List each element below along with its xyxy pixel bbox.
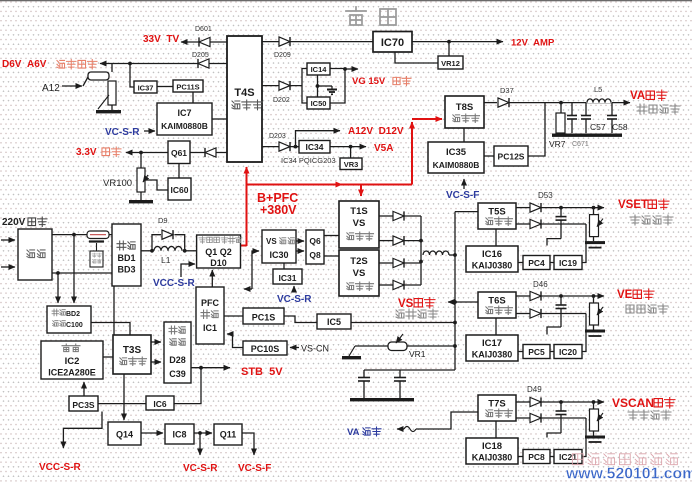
svg-text:Q61: Q61 [171, 148, 187, 158]
diode D49 top [516, 401, 530, 403]
svg-text:VC-S-R: VC-S-R [183, 463, 218, 474]
filter box [18, 229, 52, 280]
wire VSCAN output arrow [542, 401, 605, 403]
svg-text:T6S: T6S [488, 296, 505, 307]
svg-text:PC1S: PC1S [252, 313, 276, 323]
inductor L1 [154, 246, 182, 250]
VR100 resistor [140, 153, 142, 169]
wire mains input arrows [1, 239, 15, 241]
wire red bus vertical into T4S [246, 167, 248, 246]
svg-text:ICE2A280E: ICE2A280E [48, 368, 96, 378]
wire IC37-PC11S [157, 86, 173, 88]
IC17 KAIJ0380 [466, 335, 518, 361]
wire BD1 down to T3S [113, 286, 115, 335]
svg-text:VCC-S-R: VCC-S-R [39, 462, 81, 473]
wire IC1 to PC1S [224, 315, 243, 317]
wire middle between IC14 IC50 [317, 75, 319, 97]
diode D49 bottom [516, 417, 530, 419]
transformer T6S [478, 292, 516, 318]
resistor divider VE [593, 296, 595, 303]
ground below A12 resistor [111, 105, 113, 110]
node junction 3.3V line [139, 151, 143, 155]
PC11S [173, 80, 203, 92]
svg-text:PC4: PC4 [528, 258, 545, 268]
svg-text:IC2: IC2 [65, 356, 80, 367]
resistor divider VSCAN [593, 402, 595, 409]
svg-text:VC-S-F: VC-S-F [446, 190, 479, 201]
svg-text:D10: D10 [210, 258, 227, 268]
svg-text:VSCAN: VSCAN [612, 396, 654, 410]
svg-text:T1S: T1S [350, 206, 367, 217]
PFC switch box Q1 Q2 D10 [197, 235, 241, 268]
transformer T8S [445, 96, 484, 128]
wire Q14 to IC8 arrow [141, 432, 163, 434]
potentiometer VR1 [453, 344, 457, 348]
IC21 [554, 450, 582, 464]
Q6 Q8 box [306, 230, 324, 264]
svg-text:33V TV: 33V TV [143, 34, 179, 45]
svg-text:IC34: IC34 [306, 142, 324, 152]
svg-text:VA: VA [347, 427, 360, 438]
svg-text:Q14: Q14 [116, 430, 133, 440]
Q14 [108, 422, 141, 445]
svg-text:D53: D53 [538, 191, 553, 200]
wire IC34 to V5A [330, 146, 366, 148]
IC18 KAIJ0380 [466, 438, 518, 464]
svg-text:D209: D209 [274, 52, 291, 59]
IC7 KAIM0880B [157, 103, 212, 135]
IC37 [134, 81, 157, 93]
diode D46 top [516, 295, 530, 297]
wire BD1 to L1 node [141, 250, 152, 252]
svg-text:BD2: BD2 [66, 311, 80, 318]
svg-text:T3S: T3S [123, 345, 142, 356]
wire 3.3V output [126, 152, 168, 154]
svg-text:L1: L1 [161, 255, 171, 265]
varistor below fuse [89, 240, 104, 242]
transformer T2S [339, 250, 379, 296]
svg-text:T5S: T5S [488, 207, 505, 218]
svg-text:IC70: IC70 [381, 37, 404, 49]
IC8 [165, 424, 194, 444]
svg-text:VC-S-R: VC-S-R [105, 127, 140, 138]
wire resistor tap to line [111, 64, 113, 73]
svg-text:VR1: VR1 [409, 349, 426, 359]
wires into BD2 arrows [73, 235, 75, 303]
svg-text:PC3S: PC3S [72, 400, 95, 410]
svg-text:C39: C39 [169, 369, 186, 379]
wire T7S to IC18 [495, 421, 497, 438]
svg-text:VA: VA [630, 90, 645, 102]
svg-text:IC60: IC60 [171, 185, 189, 195]
diode D601 [199, 37, 210, 46]
svg-text:T4S: T4S [234, 87, 254, 99]
IC35 KAIM0880B [428, 142, 484, 173]
svg-text:D202: D202 [273, 97, 290, 104]
wire VE feedback [542, 313, 587, 315]
IC50 [307, 97, 330, 109]
ground VSET [593, 237, 595, 242]
IC19 [554, 256, 582, 270]
wire IC6 up to STB node [174, 368, 201, 404]
wire PC3S to IC2 arrow [83, 382, 85, 396]
svg-text:IC17: IC17 [482, 338, 502, 349]
svg-text:T2S: T2S [350, 256, 367, 267]
wire D28 to STB 5V [191, 367, 230, 369]
svg-text:VR12: VR12 [441, 59, 460, 68]
wire VS-CN arrow into PC10S [290, 347, 299, 349]
svg-text:IC50: IC50 [311, 99, 327, 108]
wire IC5 to VS bus [351, 322, 455, 324]
capacitor C671 [571, 103, 573, 116]
svg-text:PC12S: PC12S [498, 152, 525, 162]
wire T3S down to Q14 arrow [123, 374, 125, 420]
svg-text:VR100: VR100 [103, 178, 132, 189]
transformer T4S [227, 36, 262, 162]
wires IC30 to Q6 Q8 arrows [296, 240, 304, 242]
wire junction to IC37 [130, 64, 134, 88]
wire bus caps [364, 369, 455, 371]
diode D202 [279, 81, 290, 90]
svg-text:IC18: IC18 [482, 441, 502, 452]
svg-text:BD3: BD3 [117, 265, 135, 275]
svg-text:VG 15V: VG 15V [352, 76, 386, 87]
svg-text:PFC: PFC [201, 298, 220, 308]
diode right of Q61 [190, 152, 227, 154]
wire D37 to VA output [509, 102, 630, 104]
watermark hao-ming [346, 7, 366, 25]
svg-text:IC16: IC16 [482, 249, 502, 260]
wire IC70 to 12V AMP [412, 41, 503, 43]
capacitor VE filter [560, 296, 562, 305]
PC8 [523, 450, 550, 464]
ground small near IC50 [318, 85, 333, 87]
svg-text:IC14: IC14 [311, 65, 328, 74]
svg-text:T7S: T7S [488, 399, 505, 410]
capacitor C57 [585, 103, 587, 116]
wire 33V TV output [181, 41, 227, 43]
wire red PFC box to bus [241, 245, 247, 247]
svg-text:D6V A6V: D6V A6V [2, 59, 47, 70]
wire to A12V D12V [296, 131, 341, 147]
capacitor C58 [611, 103, 613, 116]
wires Q6 Q8 to transformers [324, 235, 339, 237]
wire VSET feedback [542, 223, 587, 225]
svg-text:VS-CN: VS-CN [301, 344, 329, 354]
VR3 [340, 158, 362, 170]
wire D6V output line [100, 63, 227, 65]
svg-text:VR7: VR7 [549, 139, 566, 149]
svg-text:L5: L5 [594, 85, 602, 94]
border top edge [0, 0, 692, 1]
svg-text:IC35: IC35 [446, 147, 467, 158]
svg-text:VS: VS [398, 298, 414, 310]
PFC control IC1 [196, 287, 224, 344]
wire VS output arrow [448, 301, 455, 303]
wire T8S to D37 [484, 102, 497, 104]
svg-text:VS: VS [353, 268, 366, 279]
wire BD2 to T3S [91, 323, 130, 336]
wire red branch to T1S [360, 185, 362, 197]
node junction D6V line [128, 62, 132, 66]
VS preset IC30 [262, 230, 296, 263]
IC70 [373, 32, 412, 53]
wire PC11S to IC7 [192, 92, 194, 103]
svg-text:IC19: IC19 [559, 258, 577, 268]
resistor horizontal near A12 [88, 72, 109, 80]
svg-text:IC1: IC1 [203, 323, 217, 333]
svg-text:PC8: PC8 [528, 452, 545, 462]
capacitor bank VS 2 [399, 370, 401, 378]
rectifier BD1 BD3 [112, 224, 141, 286]
PC1S [243, 308, 284, 324]
wire T4S to D203 [262, 146, 299, 148]
svg-text:V5A: V5A [374, 143, 393, 154]
diode D53 top [516, 207, 530, 209]
svg-text:VC-S-R: VC-S-R [277, 294, 312, 305]
wire IC7 to T4S [212, 118, 227, 120]
inductor L5 [586, 98, 612, 104]
svg-text:D9: D9 [158, 216, 168, 225]
arrow red mid bus [330, 184, 342, 186]
IC31 [273, 269, 302, 284]
IC34 [299, 141, 330, 154]
svg-text:VE: VE [617, 289, 633, 301]
rectifier filter D28 C39 [164, 322, 191, 383]
wire PC10S to IC1 arrow [227, 334, 243, 348]
wire A12 diagonal [83, 77, 88, 86]
wire bus to T6S [455, 301, 478, 303]
wire A12 arrow [62, 85, 82, 87]
wire VC-S-F arrow into IC35 [463, 179, 465, 189]
svg-text:D28: D28 [169, 355, 186, 365]
wire VS vertical bus [454, 212, 456, 370]
IC5 [317, 314, 351, 329]
wire VR wiper to ground [98, 95, 109, 109]
svg-text:D203: D203 [269, 133, 286, 140]
svg-text:www.520101.com: www.520101.com [565, 466, 692, 483]
svg-text:VC-S-F: VC-S-F [238, 463, 271, 474]
diode D46 bottom [516, 313, 530, 315]
svg-text:KAIJ0380: KAIJ0380 [472, 453, 513, 463]
svg-text:KAIJ0380: KAIJ0380 [472, 350, 513, 360]
rectifier diodes VS [379, 215, 393, 217]
svg-text:IC37: IC37 [138, 84, 154, 93]
svg-text:VS: VS [266, 237, 277, 246]
diode D37 [498, 98, 509, 107]
PC3S [69, 396, 98, 411]
PC12S [494, 146, 528, 166]
wire L1 to PFC switch box [185, 250, 197, 252]
wire PC1S to IC5 [284, 316, 317, 323]
svg-text:C671: C671 [572, 141, 589, 148]
svg-text:3.3V: 3.3V [76, 147, 97, 158]
PC10S [243, 341, 287, 355]
wire T4S to IC70 [262, 41, 373, 43]
wire red bus up to T8S [411, 122, 413, 185]
resistor VR7 [560, 103, 562, 113]
svg-text:PC11S: PC11S [176, 83, 199, 92]
wire VSET output arrow [542, 207, 605, 209]
svg-text:D46: D46 [533, 280, 548, 289]
wire VC-S-R arrow into IC7 [144, 130, 155, 132]
IC20 [554, 345, 582, 359]
svg-text:IC6: IC6 [153, 399, 167, 409]
wire junction to VR12 [448, 42, 450, 57]
wire filter to BD1 top [52, 234, 112, 236]
svg-text:+380V: +380V [260, 203, 297, 217]
wire IC2 to T3S [103, 356, 113, 358]
Q61 [168, 141, 190, 164]
IC16 KAIJ0380 [466, 246, 518, 272]
svg-text:D49: D49 [527, 385, 542, 394]
standby IC2 ICE2A280E [41, 341, 103, 379]
diode D203 [279, 142, 290, 151]
svg-text:KAIJ0380: KAIJ0380 [472, 261, 513, 271]
svg-text:Q1 Q2: Q1 Q2 [205, 247, 232, 257]
svg-text:D205: D205 [192, 52, 209, 59]
inductor VS [423, 251, 449, 255]
watermark site name [572, 454, 583, 465]
transformer T3S [113, 335, 151, 374]
svg-text:A12V D12V: A12V D12V [348, 126, 404, 137]
rectifier BD2 C100 [47, 306, 91, 333]
IC6 [146, 396, 174, 410]
wire VG output arrow [345, 68, 358, 70]
ground VE [593, 325, 595, 330]
wire VE output arrow [542, 295, 605, 297]
svg-text:PC10S: PC10S [251, 344, 280, 354]
wire IC35 to PC12S [484, 155, 494, 157]
wire red bus horizontal [247, 184, 413, 186]
diode D9 branch [152, 235, 161, 251]
wire IC1 to PFC box arrow [211, 270, 213, 287]
wire filter to BD1 bottom [52, 272, 112, 274]
wire VSCAN feedback [542, 417, 587, 419]
wire VC-S-R down arrow [199, 433, 201, 455]
diode D53 bottom [516, 223, 530, 225]
svg-text:VCC-S-R: VCC-S-R [153, 278, 195, 289]
IC14 [307, 63, 330, 75]
wires T3S to D28 arrows [151, 341, 161, 343]
wire T8S to IC35 [463, 128, 465, 142]
svg-text:T8S: T8S [456, 102, 473, 113]
svg-text:IC8: IC8 [172, 430, 186, 440]
wire IC30 to IC31 [283, 263, 285, 269]
wire bracket right of IC14 IC50 [330, 69, 345, 104]
wire Q61 to IC60 [178, 164, 180, 179]
diode D209 [279, 37, 290, 46]
resistor vertical VR near A12 [108, 81, 116, 105]
svg-text:Q6: Q6 [309, 236, 321, 246]
capacitor VSET filter [560, 208, 562, 217]
ground bar under VS caps [350, 398, 414, 401]
wire IC8 to Q11 arrow [194, 432, 212, 434]
svg-text:BD1: BD1 [117, 253, 135, 263]
wire VR1 to ground [355, 345, 388, 347]
wire VC-S-R arrow into IC31 [293, 286, 295, 292]
transformer T5S [478, 203, 516, 229]
wire T4S to D202 [262, 85, 302, 87]
svg-text:VS: VS [353, 218, 366, 229]
capacitor VSCAN filter [560, 402, 562, 411]
svg-text:C58: C58 [612, 122, 628, 132]
PC5 [523, 345, 550, 359]
ground VSCAN [593, 431, 595, 436]
svg-text:C57: C57 [590, 122, 606, 132]
IC60 [168, 178, 191, 200]
svg-text:220V: 220V [2, 217, 26, 228]
ground below VR100 [140, 192, 142, 200]
wire into IC30 left [244, 288, 252, 290]
svg-text:PC5: PC5 [528, 347, 545, 357]
wire VCC-S-R into PFC box [181, 264, 195, 277]
svg-text:STB 5V: STB 5V [241, 366, 283, 378]
resistor divider VSET [593, 208, 595, 215]
wire PC3S to IC6 [98, 403, 146, 405]
svg-text:Q8: Q8 [309, 250, 321, 260]
node junction above VR12 [447, 40, 451, 44]
svg-text:D601: D601 [195, 26, 212, 33]
fuse on top wire [87, 231, 109, 239]
svg-text:IC7: IC7 [177, 108, 191, 118]
wire VS rectifier bus [420, 216, 422, 285]
wire bracket left of IC14 IC50 [302, 69, 307, 104]
transformer T1S [339, 201, 379, 248]
svg-text:12V AMP: 12V AMP [511, 38, 555, 49]
svg-text:D37: D37 [500, 86, 514, 95]
svg-text:VSET: VSET [618, 199, 648, 211]
svg-text:A12: A12 [42, 83, 60, 94]
diode D205 [198, 59, 209, 68]
svg-text:IC34 PQICG203: IC34 PQICG203 [281, 156, 336, 165]
wire VA voltage squiggle to T7S [397, 428, 404, 430]
svg-text:IC5: IC5 [327, 317, 341, 327]
svg-text:IC30: IC30 [269, 250, 288, 260]
wire bus to T5S [455, 211, 478, 213]
capacitor bank VS 1 [363, 370, 365, 378]
svg-text:KAIM0880B: KAIM0880B [433, 160, 480, 170]
wire IC70 bottom to VR12 [395, 52, 438, 63]
svg-text:Q11: Q11 [220, 430, 237, 440]
wire PC12S up to VA line [528, 103, 545, 156]
ground bar VA filter [560, 133, 562, 134]
wire VR100 wiper to IC60 [145, 180, 168, 190]
Q11 [214, 424, 242, 445]
VR12 [438, 56, 463, 69]
svg-text:IC31: IC31 [279, 273, 297, 283]
svg-text:KAIM0880B: KAIM0880B [161, 121, 208, 131]
wire to VCC-S-R down arrow [63, 412, 102, 449]
svg-text:VR3: VR3 [344, 160, 359, 169]
wire T6S to IC17 [495, 318, 497, 335]
wire T5S to IC16 [495, 229, 497, 246]
svg-text:C100: C100 [66, 322, 83, 329]
wire Q11 to VC-S-F down arrow [242, 433, 254, 455]
transformer T7S [478, 395, 516, 421]
wire junction to VR3 [350, 147, 352, 158]
svg-text:IC20: IC20 [559, 347, 577, 357]
PC4 [523, 256, 550, 270]
